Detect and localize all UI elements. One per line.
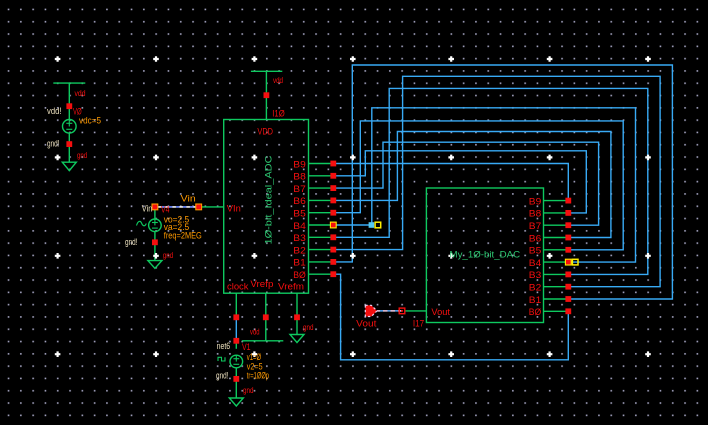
svg-text:clock: clock	[227, 282, 249, 293]
svg-text:B7: B7	[529, 221, 542, 232]
svg-text:B1: B1	[529, 295, 542, 306]
svg-text:B8: B8	[529, 209, 542, 220]
svg-text:V4: V4	[161, 205, 169, 215]
svg-text:Vin: Vin	[181, 194, 196, 205]
svg-text:gnd: gnd	[303, 322, 314, 332]
svg-text:gnd: gnd	[243, 385, 254, 395]
svg-text:B3: B3	[293, 233, 306, 244]
svg-text:net6: net6	[217, 341, 231, 351]
svg-text:freq=2MEG: freq=2MEG	[164, 231, 202, 241]
svg-text:V1: V1	[242, 342, 251, 352]
svg-text:gnd: gnd	[77, 150, 87, 160]
svg-text:tr=1ØØp: tr=1ØØp	[247, 371, 269, 381]
svg-text:vdd: vdd	[75, 88, 86, 98]
svg-text:BØ: BØ	[529, 307, 542, 318]
svg-text:B9: B9	[293, 159, 306, 170]
svg-text:BØ: BØ	[293, 270, 306, 281]
svg-text:B6: B6	[293, 196, 306, 207]
svg-text:B5: B5	[529, 246, 542, 257]
svg-text:VDD: VDD	[257, 127, 273, 138]
svg-text:vdd: vdd	[273, 75, 283, 85]
svg-text:VIn: VIn	[227, 204, 241, 215]
svg-text:I17: I17	[413, 318, 424, 329]
svg-text:Vrefm: Vrefm	[278, 282, 304, 293]
svg-text:B4: B4	[293, 221, 306, 232]
svg-text:Vout: Vout	[431, 307, 450, 318]
svg-text:I1Ø: I1Ø	[272, 109, 285, 120]
svg-text:vdc=5: vdc=5	[79, 116, 101, 126]
svg-text:B8: B8	[293, 172, 306, 183]
svg-text:Vrefp: Vrefp	[250, 279, 273, 290]
svg-text:B2: B2	[293, 245, 306, 256]
svg-text:vdd!: vdd!	[47, 106, 62, 116]
svg-text:B6: B6	[529, 233, 542, 244]
svg-text:Vin: Vin	[142, 203, 153, 213]
svg-text:vdd: vdd	[250, 327, 260, 337]
svg-text:B7: B7	[293, 184, 306, 195]
svg-text:B1: B1	[293, 258, 306, 269]
svg-text:B5: B5	[293, 209, 306, 220]
svg-text:gnd!: gnd!	[47, 139, 60, 149]
svg-text:B4: B4	[529, 258, 542, 269]
svg-text:1Ø-bit_Ideal_ADC: 1Ø-bit_Ideal_ADC	[264, 155, 275, 244]
svg-text:My_1Ø-bit_DAC: My_1Ø-bit_DAC	[450, 250, 521, 261]
svg-text:B3: B3	[529, 270, 542, 281]
svg-text:gnd: gnd	[163, 250, 173, 260]
svg-text:gnd!: gnd!	[216, 371, 229, 381]
svg-text:v1=Ø: v1=Ø	[247, 352, 261, 362]
svg-text:Vout: Vout	[356, 318, 377, 329]
svg-text:B2: B2	[529, 283, 542, 294]
svg-text:B9: B9	[529, 196, 542, 207]
svg-text:gnd!: gnd!	[125, 237, 138, 247]
